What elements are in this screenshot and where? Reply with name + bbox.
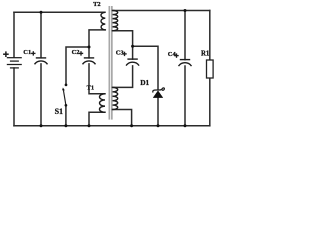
- diode D1: [153, 88, 165, 93]
- svg-text:C2: C2: [72, 49, 80, 56]
- capacitor C4: [179, 60, 192, 67]
- svg-text:C4: C4: [168, 51, 177, 58]
- wire C2 bottom to T1 left top: [89, 64, 105, 94]
- node bottom rail C1: [40, 124, 43, 127]
- wire C4 branch: [184, 11, 186, 60]
- svg-text:D1: D1: [140, 78, 149, 87]
- svg-text:C1: C1: [23, 49, 31, 56]
- wire S1 to rail: [65, 105, 67, 125]
- svg-text:T1: T1: [87, 84, 95, 91]
- wire C3 bottom to T1 right top: [113, 66, 133, 88]
- wire node to D1: [133, 46, 158, 89]
- wire battery to bottom rail: [13, 68, 15, 126]
- transformer T2: [101, 11, 118, 31]
- wire top rail left: [14, 11, 105, 13]
- resistor R1: [207, 60, 214, 78]
- node bottom rail C4: [184, 124, 187, 127]
- node C3/T2 junction: [131, 45, 134, 48]
- svg-text:C3: C3: [116, 49, 125, 56]
- wire right edge lower (R1 to rail): [209, 78, 211, 126]
- wire right edge upper (to R1): [209, 11, 211, 61]
- node top rail C4 junction: [184, 9, 187, 12]
- capacitor C3: [126, 59, 139, 66]
- wire T1 right bottom to rail: [113, 110, 132, 126]
- capacitor C1: [35, 58, 48, 64]
- transformer core (shared by T1/T2): [108, 6, 110, 120]
- wire T2 right bottom to node: [113, 31, 133, 47]
- wire C2 top: [88, 47, 90, 58]
- svg-text:R1: R1: [201, 50, 210, 57]
- T1 primary (left) winding: [99, 94, 105, 113]
- wire C1 branch: [40, 12, 42, 58]
- svg-text:T2: T2: [93, 1, 101, 8]
- wire T1 left bottom to rail: [89, 112, 105, 126]
- S1 pivot contact: [65, 104, 68, 107]
- wire C3 top: [132, 46, 134, 59]
- C2 polarity plus: [79, 51, 83, 55]
- wire node to switch: [66, 47, 89, 85]
- S1 lever: [63, 90, 65, 104]
- C3 polarity plus: [122, 52, 126, 56]
- wire left edge: [13, 12, 15, 57]
- capacitor C2: [83, 58, 96, 64]
- wire D1 to rail: [157, 97, 159, 125]
- node bottom rail T1 left: [88, 124, 91, 127]
- battery plus sign: [3, 51, 9, 57]
- C1 polarity plus: [31, 51, 35, 55]
- node bottom rail S1: [64, 124, 67, 127]
- node C2/T2 junction: [88, 46, 91, 49]
- wire T2 left bottom to node: [89, 30, 105, 47]
- T2 primary (left) winding: [101, 12, 105, 30]
- T2 secondary (right) winding: [113, 11, 118, 31]
- wire bottom rail: [14, 125, 210, 127]
- svg-text:S1: S1: [55, 107, 63, 116]
- T1 secondary (right) winding: [113, 87, 118, 109]
- battery B1: [7, 58, 22, 68]
- node top rail C1 junction: [40, 11, 43, 14]
- S1 fixed contact: [65, 84, 68, 87]
- node bottom rail D1: [157, 124, 160, 127]
- wire top rail right: [113, 10, 210, 12]
- C4 polarity plus: [174, 53, 178, 57]
- transformer T1: [99, 87, 117, 112]
- node bottom rail T1 right: [130, 124, 133, 127]
